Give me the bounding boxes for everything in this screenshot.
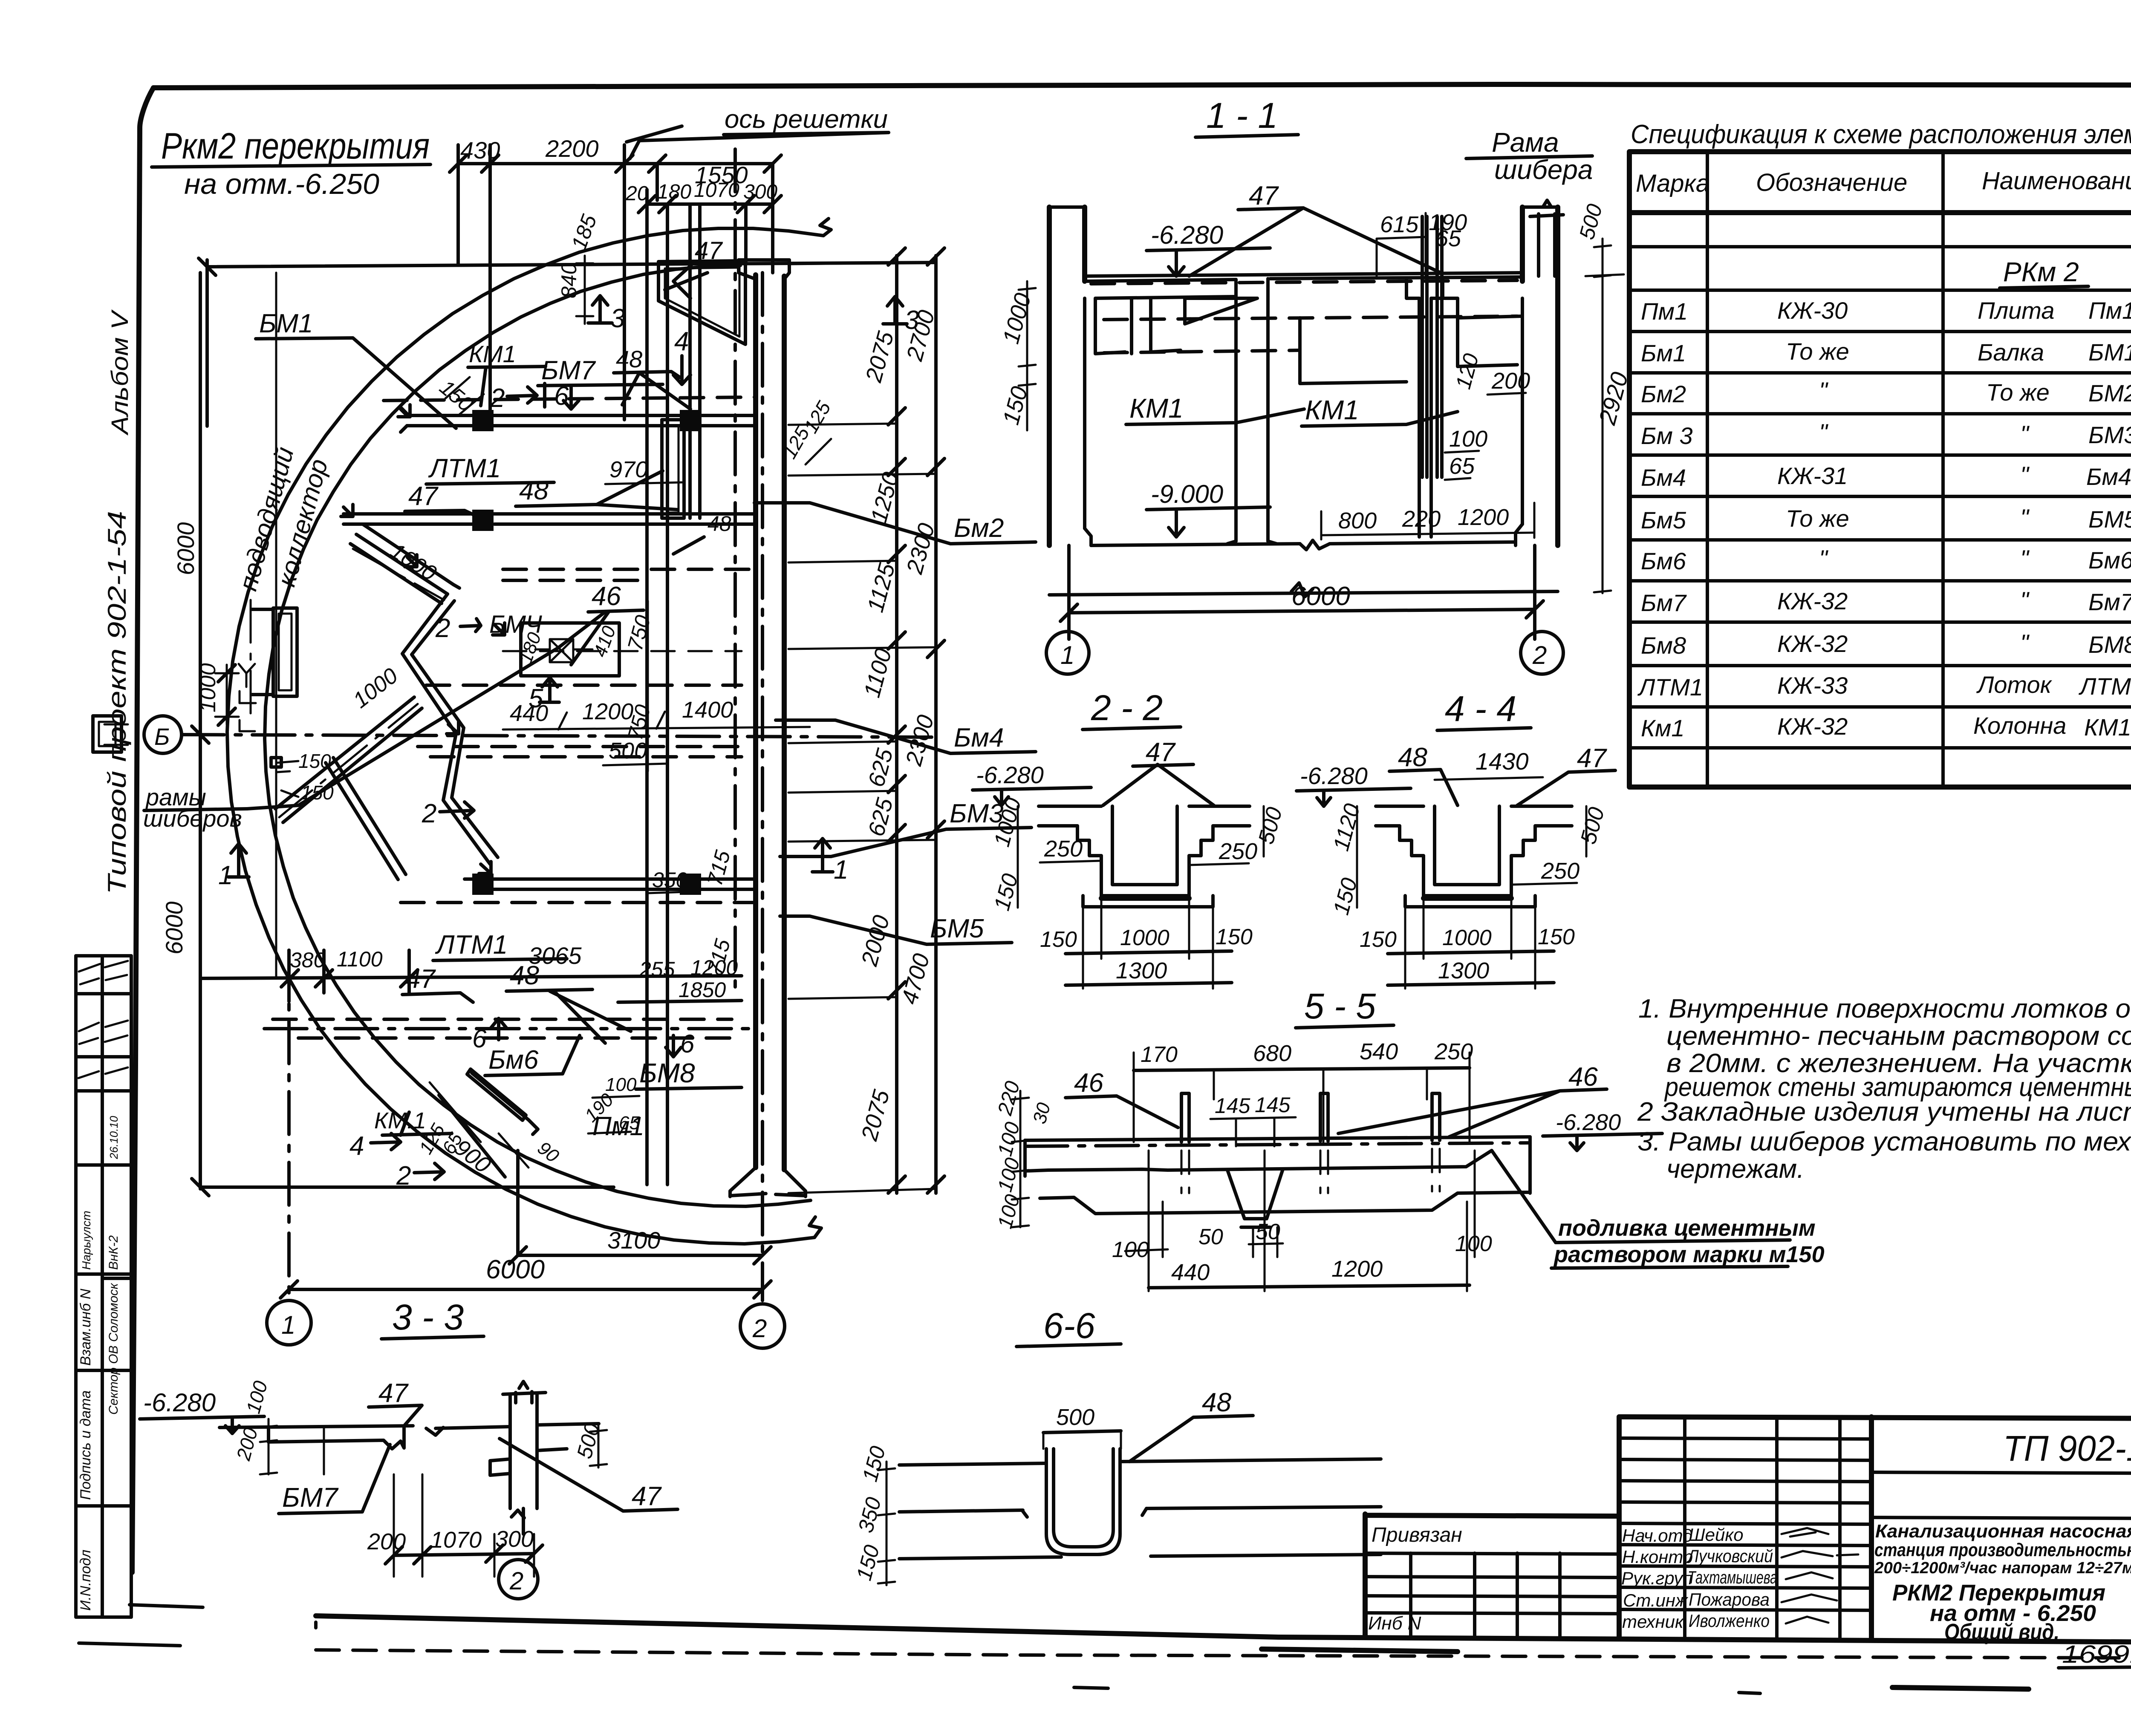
svg-text:26.10.10: 26.10.10 bbox=[107, 1116, 120, 1159]
section 1-1 title bbox=[1195, 95, 1298, 137]
5-5 left dim chain rotated bbox=[993, 1079, 1054, 1231]
svg-text:1070: 1070 bbox=[694, 179, 739, 202]
plan bottom dim 6000 bbox=[280, 1255, 771, 1298]
svg-text:170: 170 bbox=[1141, 1042, 1178, 1067]
svg-text:3100: 3100 bbox=[607, 1227, 661, 1254]
svg-text:ЛТМ1: ЛТМ1 bbox=[1637, 674, 1703, 701]
svg-text:Бм2: Бм2 bbox=[1641, 381, 1686, 407]
svg-text:150: 150 bbox=[1360, 927, 1397, 952]
tank wall outer arc bbox=[227, 228, 823, 1244]
section 2-2 title bbox=[1083, 688, 1181, 730]
row Пм1 bbox=[1641, 297, 2131, 325]
section arrow 1 up (right) bbox=[812, 839, 848, 885]
label БМ5 bbox=[780, 914, 1012, 944]
labels 48 1430 47 sec4-4 bbox=[1389, 743, 1615, 805]
svg-text:Бм8: Бм8 bbox=[1641, 632, 1686, 659]
label КМ1 right sec1-1 bbox=[1302, 395, 1458, 426]
dim 970 bbox=[605, 457, 682, 484]
svg-text:БМ5: БМ5 bbox=[930, 914, 984, 943]
svg-text:1: 1 bbox=[1060, 641, 1074, 669]
section 1-1 middle columns bbox=[1227, 279, 1443, 544]
plan centre axis vertical (ось решетки) bbox=[733, 149, 737, 989]
horizontal ticks on right dim chains bbox=[788, 262, 936, 1193]
dim 250 sec4-4 bbox=[1511, 858, 1579, 885]
svg-text:1 - 1: 1 - 1 bbox=[1206, 95, 1278, 136]
svg-text:50: 50 bbox=[1256, 1220, 1280, 1244]
svg-text:1000: 1000 bbox=[1442, 926, 1492, 950]
label Бм2 with leader bbox=[754, 503, 1036, 544]
dims 125 125 mid plan bbox=[778, 397, 835, 464]
svg-text:БМ8: БМ8 bbox=[2088, 631, 2131, 658]
dims 615 190 65 sec1-1 bbox=[1377, 210, 1467, 276]
dim 350 bbox=[648, 868, 699, 893]
svg-text:КЖ-31: КЖ-31 bbox=[1777, 462, 1848, 489]
dims 250 250 sec2-2 bbox=[1040, 836, 1257, 865]
svg-text:ВнК-2: ВнК-2 bbox=[107, 1235, 121, 1270]
svg-text:3. Рамы шиберов установить: 3. Рамы шиберов установить по механическ… bbox=[1637, 1127, 2131, 1156]
level -6.280 sec1-1 bbox=[1146, 221, 1270, 276]
svg-text:800: 800 bbox=[1338, 508, 1377, 533]
sheet frame top border bbox=[153, 84, 2131, 88]
svg-text:Обозначение: Обозначение bbox=[1756, 169, 1907, 196]
section mark 2-> upper bbox=[490, 381, 579, 413]
left dims 1000 150 sec1-1 bbox=[998, 281, 1036, 430]
svg-text:Б: Б bbox=[154, 723, 170, 750]
mark 3 with arrow top left bbox=[588, 296, 625, 333]
5-5 funnel middle bbox=[1227, 1169, 1283, 1227]
label КМ1 left sec1-1 bbox=[1126, 393, 1304, 424]
svg-text:Взам.инб N: Взам.инб N bbox=[78, 1289, 94, 1366]
svg-text:1. Внутренние поверхности: 1. Внутренние поверхности лотков оштукат… bbox=[1638, 994, 2131, 1024]
svg-text:2: 2 bbox=[422, 799, 436, 828]
svg-text:Тахтамышева: Тахтамышева bbox=[1688, 1567, 1777, 1587]
label 48 lower bbox=[506, 961, 631, 1043]
svg-text:БМ2: БМ2 bbox=[2088, 380, 2131, 407]
label ЛТМ1 upper bbox=[426, 454, 554, 484]
svg-text:БМ7: БМ7 bbox=[541, 356, 596, 385]
mark 6 lower with arrow bbox=[472, 1018, 506, 1053]
dashed beam row mid bbox=[426, 683, 742, 687]
row ЛТМ1 bbox=[1637, 671, 2131, 701]
label 47 lower bbox=[402, 964, 473, 1002]
svg-text:65: 65 bbox=[1449, 453, 1475, 479]
svg-text:Рама: Рама bbox=[1492, 127, 1559, 158]
table row РКм2 bbox=[2000, 257, 2088, 288]
3-3 label БМ7 bbox=[279, 1445, 390, 1514]
svg-text:2: 2 bbox=[435, 614, 450, 643]
label 47 top trapezoid bbox=[673, 237, 723, 298]
svg-text:3: 3 bbox=[610, 304, 625, 333]
axis Б circle and line bbox=[144, 716, 942, 753]
5-5 dims 145 145 bbox=[1210, 1093, 1296, 1146]
svg-text:440: 440 bbox=[510, 701, 548, 726]
svg-text:1070: 1070 bbox=[430, 1527, 482, 1553]
svg-text:47: 47 bbox=[378, 1378, 409, 1408]
svg-text:-6.280: -6.280 bbox=[1300, 762, 1368, 789]
svg-text:220: 220 bbox=[1402, 506, 1441, 532]
svg-text:": " bbox=[1819, 545, 1828, 572]
svg-text:4 - 4: 4 - 4 bbox=[1445, 689, 1516, 729]
svg-text:150: 150 bbox=[1040, 927, 1077, 952]
svg-text:Лоток: Лоток bbox=[1976, 671, 2053, 698]
right dim chain outer (2700 2300 2300 4700) bbox=[897, 248, 944, 1193]
svg-text:1000: 1000 bbox=[196, 663, 220, 712]
sheet frame bottom border bbox=[316, 1616, 2131, 1643]
svg-text:КЖ-33: КЖ-33 bbox=[1777, 672, 1848, 699]
svg-text:2 Закладные изделия учтен: 2 Закладные изделия учтены на листе КЖ- bbox=[1637, 1097, 2131, 1127]
svg-text:Пм1: Пм1 bbox=[592, 1112, 644, 1141]
svg-text:47: 47 bbox=[408, 482, 439, 511]
svg-text:И.N.подл: И.N.подл bbox=[78, 1550, 94, 1611]
svg-text:ТП 902-1-КЖ: ТП 902-1-КЖ bbox=[2003, 1428, 2131, 1468]
svg-text:6: 6 bbox=[472, 1024, 487, 1053]
dim 150 150 small left bbox=[271, 750, 334, 804]
tank wall inner arc bbox=[265, 265, 811, 1206]
axis circle 2 sec1-1 bbox=[1521, 632, 1563, 674]
label БМ3 bbox=[780, 799, 1031, 856]
svg-text:4: 4 bbox=[349, 1131, 364, 1161]
plan wall band A (top) bbox=[401, 409, 756, 432]
svg-text:Плита: Плита bbox=[1978, 297, 2054, 324]
svg-text:300: 300 bbox=[743, 181, 777, 203]
dim row 440 1200 1400 bbox=[503, 697, 810, 730]
row Бм5 bbox=[1641, 504, 2131, 533]
embed plate detail bbox=[515, 623, 620, 676]
sheet frame left border bbox=[132, 88, 153, 1572]
svg-text:Бм4: Бм4 bbox=[1641, 464, 1686, 491]
svg-text:Пожарова: Пожарова bbox=[1689, 1589, 1770, 1609]
dim 900 rotated bbox=[430, 1082, 528, 1178]
svg-text:615: 615 bbox=[1380, 212, 1419, 237]
6-6 dim 500 bbox=[1043, 1404, 1121, 1449]
collector inlet symbol left margin bbox=[93, 550, 256, 976]
svg-text:Бм1: Бм1 bbox=[1641, 340, 1686, 366]
svg-text:-6.280: -6.280 bbox=[1151, 221, 1223, 249]
svg-text:То же: То же bbox=[1786, 338, 1849, 365]
label 47 upper bbox=[405, 482, 481, 518]
3-3 label 47 bbox=[369, 1378, 422, 1425]
3-3 level -6.280 bbox=[140, 1388, 264, 1433]
svg-text:Подпись и дата: Подпись и дата bbox=[78, 1390, 94, 1500]
plan top dim chain 430 2200 1550 bbox=[450, 135, 781, 420]
axis 1 vertical bbox=[287, 950, 291, 1301]
row Бм4 bbox=[1641, 461, 2131, 491]
svg-text:20: 20 bbox=[625, 182, 649, 205]
mark 4 lower bbox=[349, 1131, 401, 1161]
corner angle marks bbox=[341, 405, 505, 874]
dims 120 200 sec1-1 bbox=[1451, 351, 1530, 395]
chevron 2 lower bbox=[443, 728, 498, 864]
section 1-1 top slab bbox=[1085, 273, 1522, 284]
svg-text:47: 47 bbox=[1577, 744, 1607, 773]
svg-text:1430: 1430 bbox=[1476, 748, 1529, 775]
svg-text:Бм7: Бм7 bbox=[1641, 589, 1687, 616]
section 4-4 title bbox=[1437, 689, 1531, 730]
svg-text:Бм 3: Бм 3 bbox=[1641, 422, 1693, 449]
svg-text:Бм4: Бм4 bbox=[2086, 463, 2131, 490]
svg-text:цементно- песчаным раствором: цементно- песчаным раствором состава 1:2… bbox=[1666, 1021, 2131, 1051]
bottom dim 6000 sec1-1 bbox=[1060, 545, 1543, 639]
3-3 bottom dims 200 1070 300 bbox=[367, 1474, 543, 1577]
label БМЧ (Бм4 arrow) bbox=[435, 611, 543, 643]
5-5 slab body bbox=[1025, 1137, 1530, 1214]
svg-text:Км1: Км1 bbox=[1641, 715, 1685, 741]
5-5 bottom dims bbox=[1112, 1151, 1492, 1291]
svg-text:680: 680 bbox=[1253, 1041, 1291, 1066]
svg-text:": " bbox=[1819, 377, 1828, 404]
svg-text:КЖ-30: КЖ-30 bbox=[1777, 297, 1848, 324]
label 47 sec1-1 bbox=[1189, 181, 1441, 276]
trough 2 diagonal bbox=[275, 697, 422, 822]
svg-text:на отм.-6.250: на отм.-6.250 bbox=[184, 168, 379, 200]
svg-text:2: 2 bbox=[752, 1314, 767, 1343]
svg-text:-6.280: -6.280 bbox=[976, 761, 1044, 788]
svg-text:350: 350 bbox=[652, 868, 688, 892]
svg-text:100: 100 bbox=[1449, 426, 1487, 452]
svg-text:Бм6: Бм6 bbox=[2088, 547, 2131, 574]
svg-text:540: 540 bbox=[1360, 1039, 1398, 1064]
svg-text:подливка цементным: подливка цементным bbox=[1558, 1215, 1816, 1241]
right wall of tank (plan) vertical band bbox=[730, 260, 806, 1197]
dims 715 715 rotated bbox=[703, 848, 735, 977]
section 1-1 right chamber walls bbox=[1300, 298, 1522, 384]
mark 5 arrow bbox=[528, 678, 559, 713]
svg-text:840: 840 bbox=[557, 262, 581, 298]
6-6 label 48 bbox=[1129, 1388, 1253, 1462]
5-5 label 46 right bbox=[1338, 1062, 1607, 1137]
svg-text:100: 100 bbox=[605, 1074, 637, 1095]
svg-text:шибера: шибера bbox=[1494, 154, 1593, 185]
svg-text:БМ1: БМ1 bbox=[259, 309, 313, 338]
svg-text:500: 500 bbox=[1056, 1404, 1094, 1430]
svg-text:БМ8: БМ8 bbox=[639, 1058, 695, 1088]
3-3 label 47 right bbox=[500, 1439, 678, 1511]
svg-text:": " bbox=[1819, 419, 1828, 446]
table grid bbox=[1629, 152, 2131, 787]
svg-text:Лучковский: Лучковский bbox=[1686, 1546, 1773, 1566]
svg-text:2: 2 bbox=[1532, 641, 1547, 669]
mark 2-> lower bbox=[396, 1161, 444, 1191]
dashed beam lines upper (Бм7 row) bbox=[384, 397, 754, 401]
mark 4 top bbox=[673, 327, 690, 384]
label Бм4 right bbox=[776, 720, 1036, 753]
5-5 studs bbox=[1181, 1093, 1440, 1193]
axis circle 1 sec1-1 bbox=[1046, 632, 1089, 674]
svg-text:Марка: Марка bbox=[1636, 170, 1709, 197]
svg-text:970: 970 bbox=[609, 457, 648, 482]
svg-text:Нарыулст: Нарыулст bbox=[80, 1211, 93, 1270]
bottom dims 150 1000 150 1300 sec2-2 bbox=[1040, 898, 1253, 989]
svg-text:КМ.1: КМ.1 bbox=[374, 1108, 426, 1133]
svg-text:2: 2 bbox=[396, 1161, 411, 1191]
svg-text:ЛТМ1: ЛТМ1 bbox=[435, 930, 508, 960]
svg-text:145: 145 bbox=[1215, 1094, 1250, 1118]
svg-text:48: 48 bbox=[707, 512, 731, 536]
svg-text:440: 440 bbox=[1171, 1260, 1210, 1285]
section 1-1 left wall bbox=[1049, 207, 1091, 545]
svg-text:БМ3: БМ3 bbox=[2088, 421, 2131, 448]
svg-text:КЖ-32: КЖ-32 bbox=[1777, 630, 1848, 657]
svg-text:-6.280: -6.280 bbox=[1556, 1110, 1621, 1135]
svg-text:250: 250 bbox=[1219, 839, 1257, 864]
label 46 bbox=[558, 582, 644, 665]
title block project name bbox=[1874, 1521, 2131, 1645]
signature rows text bbox=[1621, 1525, 1858, 1632]
svg-text:чертежам.: чертежам. bbox=[1666, 1154, 1804, 1184]
row Бм1 bbox=[1641, 338, 2131, 366]
svg-text:То же: То же bbox=[1786, 505, 1849, 532]
label Бм6 bbox=[485, 1035, 580, 1076]
svg-text:": " bbox=[2020, 587, 2030, 614]
svg-text:150: 150 bbox=[1538, 925, 1575, 949]
label 48 right mid bbox=[673, 512, 731, 554]
section 1-1 beams under slab bbox=[1095, 297, 1517, 354]
label 47 sec2-2 bbox=[1103, 738, 1214, 805]
svg-text:Нач.отд: Нач.отд bbox=[1622, 1525, 1692, 1546]
section 4-4 profile bbox=[1376, 806, 1572, 907]
wall band C (lower) bbox=[465, 874, 756, 895]
row Бм7 bbox=[1641, 587, 2131, 616]
svg-text:300: 300 bbox=[495, 1526, 534, 1552]
svg-text:6-6: 6-6 bbox=[1043, 1306, 1095, 1346]
section 3-3 title bbox=[381, 1297, 484, 1339]
svg-text:ЛТМ1: ЛТМ1 bbox=[428, 454, 501, 483]
6-6 left dims 150 350 150 bbox=[852, 1444, 895, 1585]
right dims 500 2920 sec1-1 bbox=[1575, 202, 1633, 593]
svg-text:То же: То же bbox=[1986, 379, 2050, 406]
svg-text:46: 46 bbox=[1074, 1068, 1103, 1098]
3-3 slab left bbox=[219, 1426, 510, 1449]
svg-text:6000: 6000 bbox=[161, 901, 188, 955]
svg-text:100: 100 bbox=[1455, 1231, 1492, 1256]
svg-text:КМ1: КМ1 bbox=[1129, 393, 1184, 424]
svg-text:200: 200 bbox=[367, 1529, 406, 1554]
svg-text:47: 47 bbox=[1146, 738, 1176, 767]
plan wall band B bbox=[344, 510, 756, 531]
svg-text:Шейко: Шейко bbox=[1689, 1525, 1744, 1545]
svg-text:47: 47 bbox=[632, 1482, 662, 1511]
svg-text:КМ1: КМ1 bbox=[469, 340, 516, 367]
svg-text:Альбом V: Альбом V bbox=[106, 309, 133, 436]
svg-text:150: 150 bbox=[298, 750, 331, 772]
svg-text:Ркм2 перекрытия: Ркм2 перекрытия bbox=[161, 126, 430, 167]
dim row 380 1100 3065 bbox=[200, 942, 742, 1001]
svg-text:Бм7: Бм7 bbox=[2088, 588, 2131, 615]
svg-text:Балка: Балка bbox=[1978, 339, 2044, 366]
5-5 level -6.280 right bbox=[1543, 1110, 1662, 1151]
svg-text:145: 145 bbox=[1255, 1093, 1291, 1117]
label ЛТМ1 lower bbox=[433, 930, 567, 960]
trough 1 diagonal bbox=[350, 524, 453, 603]
svg-text:1850: 1850 bbox=[679, 978, 726, 1002]
title block left part rows bbox=[1365, 1524, 1619, 1637]
dashed beam row lower bbox=[401, 901, 754, 904]
svg-text:1400: 1400 bbox=[682, 697, 733, 723]
svg-text:1200: 1200 bbox=[1458, 505, 1509, 530]
doc number bbox=[2059, 1641, 2131, 1668]
dims 100 65 sec1-1 bbox=[1445, 426, 1487, 480]
label Рама шибера bbox=[1466, 127, 1593, 185]
title block signature grid bbox=[1619, 1417, 1871, 1639]
svg-text:4: 4 bbox=[674, 327, 689, 356]
svg-text:65: 65 bbox=[1435, 226, 1461, 251]
svg-text:16991-05 32: 16991-05 32 bbox=[2062, 1641, 2131, 1668]
svg-text:Колонна: Колонна bbox=[1973, 712, 2066, 739]
6-6 slab lines bbox=[899, 1459, 1381, 1559]
row Бм8 bbox=[1641, 629, 2131, 659]
slab edge trapezoid opening top right of plan bbox=[658, 261, 745, 344]
svg-text:Наименование: Наименование bbox=[1982, 167, 2131, 195]
svg-text:48: 48 bbox=[510, 961, 539, 990]
level -9.000 sec1-1 bbox=[1146, 480, 1270, 537]
inlet box left bbox=[251, 608, 297, 696]
label Бм7 bbox=[538, 356, 663, 386]
break marks arc ends bbox=[809, 219, 831, 1237]
svg-text:Ст.инж: Ст.инж bbox=[1623, 1590, 1689, 1610]
svg-text:-9.000: -9.000 bbox=[1151, 480, 1223, 508]
svg-text:1300: 1300 bbox=[1438, 958, 1489, 983]
level -6.280 sec4-4 bbox=[1297, 762, 1411, 806]
bottom second edge line bbox=[316, 1650, 2131, 1658]
svg-text:150: 150 bbox=[1216, 925, 1253, 949]
svg-text:Пм1: Пм1 bbox=[1641, 298, 1688, 325]
svg-text:": " bbox=[2020, 504, 2030, 531]
svg-text:ЛТМ1: ЛТМ1 bbox=[2079, 673, 2131, 700]
svg-text:1200: 1200 bbox=[582, 699, 633, 724]
dim 840 rotated bbox=[557, 256, 593, 324]
svg-text:Сектор ОВ Соломоск: Сектор ОВ Соломоск bbox=[107, 1283, 121, 1415]
svg-text:48: 48 bbox=[519, 476, 549, 505]
dims 750 750 rotated bbox=[623, 601, 655, 771]
svg-text:": " bbox=[2020, 421, 2030, 447]
svg-text:Канализационная насосная: Канализационная насосная bbox=[1875, 1521, 2131, 1542]
stamp column bottom-left bbox=[76, 956, 131, 1617]
svg-text:48: 48 bbox=[1202, 1388, 1231, 1417]
right dim 500 sec2-2 bbox=[1254, 805, 1287, 856]
dims 800 220 1200 sec1-1 bbox=[1321, 503, 1534, 539]
svg-text:3 - 3: 3 - 3 bbox=[392, 1297, 464, 1337]
svg-text:Бм4: Бм4 bbox=[954, 723, 1004, 753]
svg-text:Рук.груп: Рук.груп bbox=[1621, 1568, 1692, 1588]
svg-text:48: 48 bbox=[1398, 743, 1427, 772]
row Км1 bbox=[1641, 712, 2131, 741]
svg-text:Привязан: Привязан bbox=[1372, 1524, 1462, 1546]
left dims 1000 150 sec2-2 bbox=[990, 795, 1026, 913]
svg-text:2200: 2200 bbox=[545, 135, 599, 162]
svg-text:2 - 2: 2 - 2 bbox=[1091, 688, 1163, 728]
svg-text:1: 1 bbox=[834, 855, 848, 885]
svg-text:Бм2: Бм2 bbox=[954, 513, 1004, 543]
label подливка цементным bbox=[1492, 1151, 1825, 1268]
3-3 axis circle 2 bbox=[499, 1560, 538, 1599]
svg-text:50: 50 bbox=[1198, 1225, 1223, 1249]
svg-text:150: 150 bbox=[301, 781, 334, 804]
svg-text:РКм 2: РКм 2 bbox=[2003, 257, 2079, 287]
svg-text:": " bbox=[2020, 461, 2030, 488]
svg-text:Типовой проект 902-1-54: Типовой проект 902-1-54 bbox=[103, 511, 131, 894]
label КМ1 top bbox=[468, 340, 546, 406]
mark 2-> mid bbox=[422, 799, 474, 828]
svg-text:Бм6: Бм6 bbox=[1641, 548, 1686, 574]
svg-text:Пм1: Пм1 bbox=[2088, 297, 2131, 324]
left dims 1120 150 sec4-4 bbox=[1329, 801, 1365, 917]
lower-left diagonal wall bbox=[326, 758, 406, 880]
bottom dims sec4-4 bbox=[1360, 898, 1575, 989]
svg-text:Общий вид.: Общий вид. bbox=[1944, 1619, 2059, 1645]
rамы шиберов + leader bbox=[143, 648, 558, 832]
section 2-2 profile bbox=[1039, 806, 1250, 907]
svg-text:1300: 1300 bbox=[1116, 958, 1167, 983]
